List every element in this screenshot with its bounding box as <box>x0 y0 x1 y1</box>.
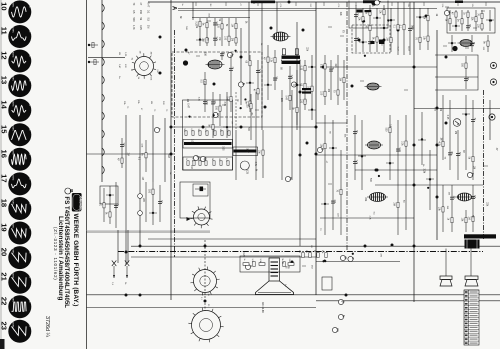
switch box <box>100 186 118 204</box>
svg-text:1M: 1M <box>141 177 143 180</box>
vertical wire x300 <box>299 60 301 246</box>
svg-text:50Hz: 50Hz <box>12 150 14 155</box>
svg-text:2: 2 <box>29 6 33 8</box>
small inner box <box>193 184 208 196</box>
output transformer block <box>465 240 480 249</box>
component stack group: left mid <box>117 138 147 172</box>
svg-text:150: 150 <box>203 158 205 161</box>
svg-text:0,25: 0,25 <box>222 146 224 151</box>
wire y123 mid <box>316 122 347 124</box>
svg-text:50Hz: 50Hz <box>12 297 14 302</box>
oscillogram 18 <box>8 197 32 220</box>
svg-text:2M: 2M <box>231 38 233 41</box>
svg-text:150: 150 <box>139 10 142 15</box>
bottom-left corner smudge <box>0 339 5 349</box>
bus wire y246 <box>131 245 500 247</box>
component stack group: mid columns <box>208 92 264 178</box>
component row: crt drive <box>243 259 294 267</box>
wire y170 right <box>355 169 437 171</box>
pencil line y230 <box>87 230 211 232</box>
svg-text:2M: 2M <box>211 158 213 161</box>
tube V5 <box>455 193 474 201</box>
tube socket S3 <box>190 267 219 296</box>
oscillogram 14 <box>8 99 32 122</box>
svg-text:100Hz: 100Hz <box>12 27 14 33</box>
svg-text:50Hz: 50Hz <box>12 224 14 229</box>
svg-text:11: 11 <box>0 27 8 36</box>
svg-text:1M: 1M <box>150 101 152 104</box>
svg-text:0,47: 0,47 <box>246 148 249 153</box>
svg-text:22k: 22k <box>407 4 409 7</box>
bus wire y10 <box>178 10 316 12</box>
svg-text:2: 2 <box>29 325 33 327</box>
svg-text:d: d <box>343 256 348 258</box>
svg-text:1M: 1M <box>190 165 193 168</box>
svg-text:0,47: 0,47 <box>146 3 149 8</box>
svg-text:2M: 2M <box>150 52 152 55</box>
svg-text:1M: 1M <box>468 216 470 219</box>
delay-line box 1 <box>183 140 233 149</box>
svg-text:2M: 2M <box>386 37 388 40</box>
CRT control box <box>240 256 300 272</box>
svg-text:16: 16 <box>0 150 8 158</box>
svg-text:2M: 2M <box>454 131 456 134</box>
svg-text:100Hz: 100Hz <box>12 174 14 180</box>
bus wire y300 right <box>316 300 500 302</box>
svg-text:2M: 2M <box>439 108 441 111</box>
svg-text:0,25: 0,25 <box>204 129 206 133</box>
switch labels <box>111 282 126 286</box>
svg-text:220: 220 <box>280 98 283 103</box>
focus unit dark rect <box>195 187 206 192</box>
svg-text:2: 2 <box>29 227 33 229</box>
svg-text:A: A <box>171 6 177 11</box>
svg-text:5k: 5k <box>137 77 139 79</box>
ion trap labels <box>310 228 321 248</box>
svg-text:0,47: 0,47 <box>226 96 228 101</box>
top connector bar 2 <box>363 0 375 3</box>
oscillogram 23 <box>8 320 32 343</box>
output transformer top bar <box>464 234 496 238</box>
top bus labels <box>181 2 486 8</box>
svg-text:2M: 2M <box>127 153 129 156</box>
IF transformer core bar 1 <box>282 56 301 59</box>
vertical wire x249 <box>248 2 250 60</box>
svg-text:1M: 1M <box>469 24 471 27</box>
svg-text:AW 43-88: AW 43-88 <box>261 302 264 313</box>
svg-text:2M: 2M <box>423 16 425 19</box>
top connector bar 3 <box>455 1 463 4</box>
svg-text:150Hz: 150Hz <box>12 199 14 205</box>
wire y17 <box>192 17 250 19</box>
svg-text:b: b <box>241 83 246 85</box>
svg-text:e: e <box>351 257 356 259</box>
svg-text:1M: 1M <box>186 99 188 102</box>
right box inner stack <box>461 56 469 89</box>
svg-text:10: 10 <box>0 2 8 10</box>
svg-text:0,47: 0,47 <box>285 95 287 100</box>
svg-text:500: 500 <box>212 129 214 132</box>
svg-text:21: 21 <box>0 272 8 281</box>
flyback dashed box <box>352 25 390 53</box>
speaker wires <box>446 249 471 277</box>
svg-text:19: 19 <box>0 223 8 231</box>
vertical wire x193 <box>192 2 194 20</box>
svg-text:14: 14 <box>0 100 8 109</box>
svg-text:150Hz: 150Hz <box>12 52 14 58</box>
svg-text:3,3k: 3,3k <box>226 129 228 133</box>
svg-text:150: 150 <box>197 129 199 132</box>
svg-text:2: 2 <box>29 153 33 155</box>
svg-text:2: 2 <box>29 178 33 180</box>
svg-text:4,7k: 4,7k <box>279 4 281 8</box>
svg-text:2: 2 <box>29 301 33 303</box>
svg-text:B: B <box>69 189 74 192</box>
delay module inner parts <box>185 158 229 165</box>
main vertical wire x414 <box>413 2 415 302</box>
tuner socket S1 <box>132 53 156 78</box>
dash-dot divider x347 <box>346 2 348 250</box>
svg-text:WERKE GMBH FÜRTH (BAY.): WERKE GMBH FÜRTH (BAY.) <box>72 214 81 307</box>
vertical wire x282 mid <box>281 90 283 180</box>
bottom small box left <box>322 277 332 290</box>
svg-text:2M: 2M <box>209 4 211 7</box>
tube V2 video amp <box>271 32 291 41</box>
tube module box <box>180 182 210 218</box>
delay line bar 2 <box>234 150 257 153</box>
svg-text:g: g <box>341 300 346 302</box>
svg-text:1M: 1M <box>146 25 149 28</box>
vertical wire x277 <box>276 2 278 34</box>
component stack group: right column <box>438 95 476 232</box>
svg-text:0,25: 0,25 <box>245 169 248 174</box>
chassis dash-dot bus y251 <box>118 251 483 253</box>
oscillogram 11 <box>8 25 32 48</box>
tube V4 <box>367 193 388 202</box>
vertical wire x292 mid <box>291 90 293 180</box>
main vertical wire x437 <box>436 30 438 240</box>
svg-text:0,47: 0,47 <box>407 46 410 51</box>
top border wire <box>148 1 500 3</box>
component stack group: AFC box <box>445 10 494 52</box>
oscillogram 19 <box>8 222 32 245</box>
component stack group: IF input rows <box>195 18 237 46</box>
oscillogram 17 <box>8 172 32 195</box>
vertical wire x297 <box>296 22 298 130</box>
top connector bar 1 <box>251 1 275 4</box>
svg-text:2: 2 <box>29 31 33 33</box>
crt neck labels <box>261 262 286 313</box>
svg-text:0,25: 0,25 <box>225 158 227 162</box>
component stack group: hv rails <box>393 2 429 55</box>
wire y232 <box>87 231 211 233</box>
vertical wire x241 <box>240 28 242 105</box>
svg-text:0,47: 0,47 <box>186 103 189 108</box>
oscillogram 20 <box>8 246 32 269</box>
wire y239 <box>148 238 316 240</box>
wire y57 left <box>88 57 125 59</box>
svg-text:1,2k: 1,2k <box>207 292 209 296</box>
oscillogram 21 <box>8 271 32 294</box>
vertical wire x153 <box>152 115 154 182</box>
antenna jacks right edge <box>489 62 497 120</box>
black terminal A <box>183 60 188 65</box>
oscillogram 10 <box>8 0 32 23</box>
small socket S5 <box>240 161 249 170</box>
CRT picture tube <box>256 258 294 295</box>
tube V1 IF amp <box>206 60 225 69</box>
delay line bar 1 <box>184 142 232 145</box>
svg-text:500: 500 <box>183 129 185 132</box>
IF module dashed box <box>172 52 262 117</box>
svg-text:15: 15 <box>0 125 8 134</box>
oscillogram 16 <box>8 148 32 171</box>
oscillogram 12 <box>8 50 32 73</box>
bus wire y8 <box>178 8 437 10</box>
svg-text:3,3k: 3,3k <box>191 158 193 162</box>
svg-text:50Hz: 50Hz <box>12 2 14 7</box>
svg-text:2M: 2M <box>451 151 453 154</box>
wire y108 right <box>414 108 500 110</box>
legend table <box>464 290 479 345</box>
svg-text:0,25: 0,25 <box>446 115 448 120</box>
svg-text:m: m <box>335 328 340 331</box>
dashed wire x205 crt <box>204 240 206 311</box>
vertical wire x126 <box>125 115 127 265</box>
wire y218 right <box>320 217 414 219</box>
svg-text:100Hz: 100Hz <box>12 248 14 254</box>
svg-text:100Hz: 100Hz <box>12 101 14 107</box>
column head labels <box>123 100 167 112</box>
delay-line box 2 <box>233 147 258 156</box>
svg-text:2: 2 <box>29 104 33 106</box>
wire y155 right <box>316 154 437 156</box>
svg-text:23: 23 <box>0 322 8 330</box>
svg-text:20: 20 <box>0 248 8 256</box>
fine label speckle layer <box>127 7 498 269</box>
component stack group: flyback area <box>354 5 395 52</box>
delay module outer box <box>183 100 233 170</box>
svg-text:100: 100 <box>218 158 220 161</box>
oscillogram 22 <box>8 295 32 318</box>
svg-text:1M: 1M <box>467 77 469 80</box>
svg-text:150Hz: 150Hz <box>12 273 14 279</box>
component stack group: deflection left <box>99 182 163 228</box>
svg-text:150: 150 <box>204 52 207 57</box>
svg-text:h: h <box>288 177 293 179</box>
coil with core <box>302 88 311 94</box>
svg-text:8n: 8n <box>130 58 132 60</box>
component cluster: tuner labels <box>132 3 149 31</box>
svg-text:150Hz: 150Hz <box>12 125 14 131</box>
svg-text:3,3k: 3,3k <box>441 4 443 8</box>
svg-text:13: 13 <box>0 76 8 84</box>
svg-text:1M: 1M <box>258 150 260 153</box>
vertical wire x490 <box>489 100 491 140</box>
svg-text:1M: 1M <box>439 138 441 141</box>
vertical wire x236 mid <box>235 92 237 180</box>
component stack group: sync stage <box>320 55 345 105</box>
speaker LS1 <box>440 276 452 286</box>
capsule contacts on x140 <box>138 194 143 216</box>
svg-text:4,7k: 4,7k <box>132 25 135 30</box>
svg-text:500: 500 <box>410 25 413 30</box>
svg-text:1k: 1k <box>130 69 132 71</box>
component row: audio bottom <box>298 250 327 258</box>
svg-text:4,7k: 4,7k <box>337 4 339 8</box>
svg-text:(Zl.-3123 - 1101/62): (Zl.-3123 - 1101/62) <box>53 227 58 280</box>
bus wire y295 <box>87 294 500 296</box>
arrow marker triangle <box>187 217 191 221</box>
svg-text:2: 2 <box>29 80 33 82</box>
booster diode dark parts <box>371 40 385 45</box>
svg-text:0,25: 0,25 <box>300 66 302 71</box>
delay row top parts <box>183 129 230 136</box>
bus wire y257 <box>131 256 316 258</box>
main vertical wire x171 <box>170 0 172 300</box>
vertical wire x118 low <box>117 230 119 263</box>
svg-text:50Hz: 50Hz <box>12 76 14 81</box>
IF transformer core bar 2 <box>282 61 301 64</box>
schematic left border <box>86 0 88 349</box>
svg-text:1M: 1M <box>139 51 141 54</box>
svg-text:2: 2 <box>29 55 33 57</box>
svg-text:2: 2 <box>29 276 33 278</box>
black terminal C <box>452 46 457 51</box>
svg-text:3,3k: 3,3k <box>149 76 151 80</box>
svg-text:2: 2 <box>29 203 33 205</box>
speaker LS2 <box>465 276 478 286</box>
bus wire y307 left <box>87 307 317 309</box>
svg-text:2M: 2M <box>339 78 341 81</box>
dash-dot divider x483 <box>483 90 485 240</box>
switch contacts <box>112 261 130 279</box>
vertical wire x165 <box>164 118 166 182</box>
svg-text:2: 2 <box>29 129 33 131</box>
socket S3 labels <box>200 292 209 307</box>
component cluster: converter labels <box>118 52 126 79</box>
vertical wire x256 mid <box>255 92 257 180</box>
svg-text:1M: 1M <box>118 52 120 55</box>
svg-text:22: 22 <box>0 297 8 305</box>
svg-text:k: k <box>341 315 346 317</box>
svg-text:1M: 1M <box>218 37 220 40</box>
svg-text:1M: 1M <box>473 166 475 169</box>
component stack group: video stage <box>263 45 316 125</box>
tube socket S4 <box>188 308 223 343</box>
tuner AFC box <box>447 8 495 33</box>
svg-text:1M: 1M <box>167 154 170 157</box>
svg-text:100: 100 <box>219 129 221 132</box>
vertical wire x140 <box>139 115 141 246</box>
top left module outline <box>349 1 388 29</box>
tube socket S2 <box>190 206 212 228</box>
right module box <box>435 55 478 90</box>
vertical wire x128 low <box>127 230 129 263</box>
wire y154 <box>87 153 175 155</box>
black terminal B <box>371 0 376 5</box>
circled terminals <box>154 0 475 333</box>
oscillogram 13 <box>8 74 32 97</box>
svg-text:0,25: 0,25 <box>242 252 244 257</box>
circled B mark <box>65 188 74 194</box>
svg-text:0,25: 0,25 <box>190 139 192 144</box>
wire y261 right <box>316 261 400 263</box>
svg-text:2M: 2M <box>327 89 329 92</box>
vertical wire x262 <box>261 2 263 130</box>
svg-text:0,25: 0,25 <box>139 25 142 30</box>
tube V6 <box>458 40 475 47</box>
svg-text:18: 18 <box>0 199 8 207</box>
wire y67 right <box>320 66 437 68</box>
delay module lower box <box>183 157 233 170</box>
component stack group: IF module <box>200 52 261 112</box>
svg-text:100Hz: 100Hz <box>12 322 14 328</box>
svg-text:2n: 2n <box>181 4 183 6</box>
tube V7 <box>365 83 382 90</box>
svg-text:150: 150 <box>197 158 199 161</box>
main vertical wire x316 <box>315 2 317 295</box>
svg-text:0,25: 0,25 <box>320 64 322 69</box>
bus wire y127 <box>171 126 316 128</box>
svg-text:17: 17 <box>0 174 8 182</box>
oscillogram 15 <box>8 123 32 146</box>
flyback top black bar <box>357 10 372 13</box>
tuner socket labels <box>130 51 158 81</box>
svg-text:3,3k: 3,3k <box>423 168 426 173</box>
component stack group: mid right <box>320 112 434 235</box>
svg-text:1M: 1M <box>453 196 455 199</box>
dash-dot section divider x174 <box>174 30 176 257</box>
svg-text:3726d ¼: 3726d ¼ <box>44 316 50 337</box>
IF transformer windings <box>282 49 301 61</box>
svg-text:2: 2 <box>29 252 33 254</box>
svg-text:12: 12 <box>0 51 8 59</box>
svg-text:GRUNDIG: GRUNDIG <box>78 196 82 212</box>
tuner chain column <box>102 0 104 182</box>
scanner edge shading left <box>0 0 2 349</box>
svg-text:2M: 2M <box>393 202 395 205</box>
svg-text:1k: 1k <box>185 158 187 160</box>
wire y185 right <box>375 184 483 186</box>
svg-text:10k: 10k <box>471 4 473 7</box>
transistor T1 <box>453 119 461 127</box>
tube V3 <box>365 141 383 149</box>
svg-text:0,5: 0,5 <box>190 129 192 132</box>
svg-text:500: 500 <box>132 18 135 23</box>
component cluster: chain parts <box>88 42 99 64</box>
svg-text:1M: 1M <box>231 24 233 27</box>
GRUNDIG logo <box>72 193 83 212</box>
